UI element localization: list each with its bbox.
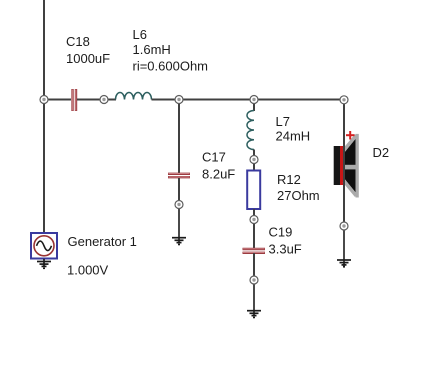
node (top-right corner) (340, 96, 348, 104)
wire: node D to top-right corner node (254, 99, 344, 101)
label C18 value 1000uF (66, 51, 110, 66)
wire: C18 to node B (77, 99, 104, 101)
node E (C17/ground) (175, 201, 183, 209)
svg-text:8.2uF: 8.2uF (202, 167, 235, 182)
wire: main horizontal from input node to C18 (44, 99, 71, 101)
label D2 designator (373, 145, 390, 160)
wire: speaker branch vertical from corner node to node I (343, 100, 345, 227)
capacitor C18 (72, 89, 76, 111)
svg-text:Generator 1: Generator 1 (68, 234, 137, 249)
wire: L7 to node F (253, 150, 255, 160)
label R12 designator (277, 172, 301, 187)
label R12 value 27Ohm (277, 188, 320, 203)
wire: C17 to node E (178, 178, 180, 205)
polarity plus sign of D2 (346, 131, 355, 140)
node A (input junction) (40, 96, 48, 104)
label C19 value 3.3uF (269, 242, 302, 257)
node F (L7/R12 junction) (250, 156, 258, 164)
label C17 designator (202, 150, 226, 165)
svg-text:1.000V: 1.000V (67, 263, 109, 278)
ground (generator) (37, 259, 51, 269)
wire: speaker crossing segment (343, 130, 345, 226)
label C19 designator (269, 225, 293, 240)
wire: R12 to node G (253, 209, 255, 220)
node H (C19/ground) (250, 276, 258, 284)
wire: L7 branch from node D (253, 100, 255, 112)
ground (speaker branch) (337, 260, 351, 267)
label C18 designator (66, 34, 90, 49)
wire: node F to R12 (253, 160, 255, 172)
svg-text:24mH: 24mH (276, 129, 311, 144)
svg-text:L7: L7 (276, 114, 290, 129)
node B (C18/L6 junction) (100, 96, 108, 104)
node G (R12/C19 junction) (250, 216, 258, 224)
label L6 designator (133, 27, 147, 42)
label generator value 1.000V (67, 263, 109, 278)
inductor L7 (247, 111, 254, 150)
svg-text:C17: C17 (202, 150, 226, 165)
label L6 value 1.6mH (133, 42, 171, 57)
wire: node E to ground (178, 205, 180, 244)
label Generator 1 (68, 234, 137, 249)
wire: node I to ground (speaker branch) (343, 226, 345, 266)
wire: C19 to node H (253, 253, 255, 280)
svg-text:D2: D2 (373, 145, 390, 160)
wire: L6 to node C (152, 99, 180, 101)
wire: node H to ground (253, 280, 255, 317)
ground (C19 branch) (247, 311, 261, 318)
wire: node C to node D (179, 99, 254, 101)
svg-text:C18: C18 (66, 34, 90, 49)
label L7 designator (276, 114, 290, 129)
svg-text:L6: L6 (133, 27, 147, 42)
wire: C17 branch down from node C (178, 100, 180, 174)
label L7 value 24mH (276, 129, 311, 144)
wire: node G to C19 (253, 220, 255, 250)
wire: left vertical from top edge down to generator (43, 0, 45, 233)
capacitor C19 (243, 249, 266, 253)
svg-text:ri=0.600Ohm: ri=0.600Ohm (133, 59, 209, 74)
loudspeaker D2 (334, 134, 359, 198)
capacitor C17 (168, 174, 190, 178)
node C (C17 junction) (175, 96, 183, 104)
svg-text:R12: R12 (277, 172, 301, 187)
node I (speaker/ground) (340, 222, 348, 230)
svg-text:1000uF: 1000uF (66, 51, 110, 66)
svg-text:3.3uF: 3.3uF (269, 242, 302, 257)
label C17 value 8.2uF (202, 167, 235, 182)
ground (C17 branch) (172, 238, 186, 245)
svg-text:1.6mH: 1.6mH (133, 42, 171, 57)
label L6 internal resistance ri=0.600Ohm (133, 59, 209, 74)
resistor R12 (247, 171, 260, 210)
svg-text:C19: C19 (269, 225, 293, 240)
generator VG1 (31, 233, 57, 259)
inductor L6 (116, 93, 152, 100)
wire: node B to L6 (104, 99, 116, 101)
svg-text:27Ohm: 27Ohm (277, 188, 320, 203)
node D (L7 junction) (250, 96, 258, 104)
